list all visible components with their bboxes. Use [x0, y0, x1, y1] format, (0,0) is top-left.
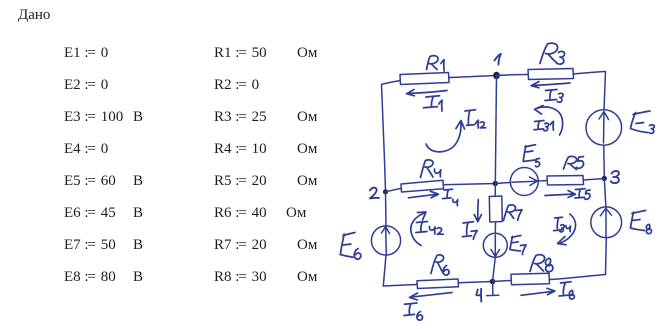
label I3 — [545, 90, 563, 103]
resistor R3 — [528, 69, 574, 80]
current arrow I8 — [521, 288, 555, 295]
value R1 — [214, 46, 267, 61]
label I6 — [404, 303, 423, 320]
node 3 — [602, 176, 607, 181]
loop arrow I34 — [558, 214, 576, 245]
unit E6 В — [133, 206, 143, 221]
unit E7 В — [133, 238, 143, 253]
label I5 — [575, 189, 590, 200]
value R6 — [214, 206, 267, 221]
value E1 — [64, 46, 108, 61]
wire R1 to node 1 — [449, 76, 496, 78]
label I12 — [465, 110, 486, 128]
label I1 — [424, 96, 443, 111]
value R8 — [214, 270, 267, 285]
label R7 — [504, 205, 523, 221]
wire bottom-left corner to R6 — [383, 285, 417, 287]
label I7 — [462, 222, 477, 240]
unit E3 В — [133, 110, 143, 125]
label I31 — [534, 121, 553, 131]
EMF source E7 — [483, 233, 507, 257]
wire node 2 to E6 — [385, 192, 388, 226]
resistor R4 — [401, 180, 444, 192]
label R5 — [564, 156, 584, 169]
resistor R6 — [417, 279, 459, 289]
label E6 — [340, 233, 361, 260]
value R5 — [214, 174, 267, 189]
unit E8 В — [133, 270, 143, 285]
unit R5 Ом — [297, 174, 317, 189]
value R2 — [214, 78, 259, 93]
wire R4 to center junction — [444, 184, 496, 185]
resistor R1 — [400, 73, 449, 85]
title Дано — [18, 8, 50, 23]
resistor R5 — [547, 176, 584, 186]
wire R5 to node 3 — [584, 179, 605, 181]
value R3 — [214, 110, 267, 125]
node 2 — [383, 189, 388, 194]
value R7 — [214, 238, 267, 253]
label R1 — [427, 56, 445, 71]
resistor R8 — [511, 273, 550, 285]
value E7 — [64, 238, 116, 253]
center junction node — [493, 181, 498, 186]
unit R7 Ом — [297, 238, 317, 253]
label I34 — [554, 217, 571, 232]
current arrow I7 — [474, 200, 481, 222]
loop arrow I12 — [426, 121, 465, 152]
loop arrow I42 — [411, 212, 426, 246]
label I8 — [559, 282, 574, 299]
label E7 — [510, 236, 526, 255]
value E8 — [64, 270, 116, 285]
label R4 — [421, 160, 441, 178]
label E8 — [631, 211, 652, 234]
current arrow I4 — [409, 191, 439, 198]
node 4 — [490, 279, 496, 285]
value E5 — [64, 174, 116, 189]
value E3 — [64, 110, 123, 125]
current arrow I6 — [410, 293, 453, 301]
wire E6 to bottom-left corner — [383, 255, 386, 286]
label node 3 — [611, 171, 619, 183]
label node 4 — [476, 289, 481, 302]
wire R7 to E7 — [494, 222, 496, 234]
wire R8 to bottom-right corner — [550, 275, 606, 280]
value E2 — [64, 78, 108, 93]
wire R3 to top-right corner — [574, 72, 606, 75]
value E4 — [64, 142, 108, 157]
wire node 1 down to junction — [495, 76, 496, 184]
label node 1 — [495, 54, 501, 65]
label I4 — [443, 189, 458, 206]
wire E7 to node 4 — [493, 257, 496, 281]
value E6 — [64, 206, 116, 221]
label E3 — [631, 111, 655, 133]
wire node 4 to R8 — [493, 281, 512, 282]
label R8 — [530, 255, 553, 272]
node 1 — [493, 72, 500, 80]
wire junction to E5 — [495, 183, 510, 184]
EMF source E6 — [371, 226, 400, 255]
current arrow I3 — [531, 82, 570, 88]
wire left side: corner to node 2 — [382, 85, 386, 192]
unit E5 В — [133, 174, 143, 189]
EMF source E3 — [586, 110, 622, 146]
wire R6 to node 4 — [459, 282, 493, 283]
wire E3 to node 3 — [603, 145, 606, 178]
wire junction to R7 — [494, 184, 496, 197]
value R4 — [214, 142, 267, 157]
unit R6 Ом — [286, 206, 306, 221]
wire node 2 to R4 — [386, 188, 402, 192]
label R6 — [431, 255, 449, 275]
unit R1 Ом — [297, 46, 317, 61]
current arrow I5 — [545, 191, 576, 198]
EMF source E8 — [591, 207, 622, 238]
resistor R7 — [489, 196, 502, 222]
loop arrow I31 — [535, 106, 563, 136]
EMF source E5 — [510, 168, 538, 196]
wire E5 to R5 — [538, 180, 547, 183]
current arrow I1 — [407, 90, 448, 96]
unit R3 Ом — [297, 110, 317, 125]
wire top-right corner down to E3 — [604, 72, 606, 110]
wire E8 to bottom-right corner — [605, 237, 608, 274]
label E5 — [523, 145, 539, 167]
wire node 3 to E8 — [604, 179, 606, 209]
unit R8 Ом — [297, 270, 317, 285]
label I42 — [416, 222, 443, 235]
label node 2 — [370, 188, 379, 199]
wire node 1 to R3 — [496, 75, 528, 76]
label R3 — [540, 43, 565, 64]
ground tick at node 4 — [487, 284, 499, 296]
unit R4 Ом — [297, 142, 317, 157]
wire top-left to R1 — [382, 81, 401, 85]
